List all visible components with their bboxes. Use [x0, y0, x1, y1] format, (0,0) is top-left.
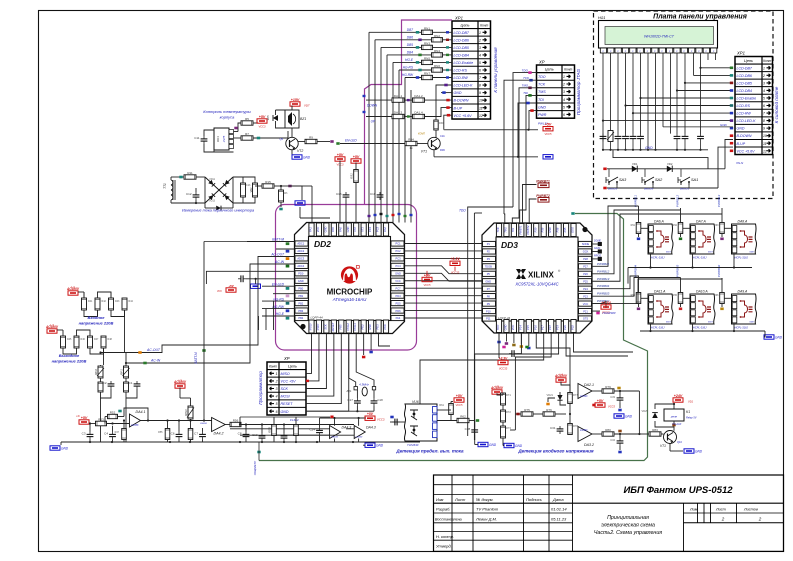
svg-text:GND: GND — [538, 105, 546, 109]
svg-text:P35: P35 — [563, 227, 567, 232]
IC DD3 Xilinx logo — [516, 269, 526, 279]
svg-text:PWRB11: PWRB11 — [597, 262, 609, 266]
svg-text:XS-N: XS-N — [735, 161, 744, 165]
svg-text:R46: R46 — [81, 338, 86, 341]
svg-text:+5V: +5V — [337, 153, 344, 157]
svg-text:3: 3 — [479, 46, 481, 50]
svg-text:C2: C2 — [103, 381, 107, 385]
svg-text:Выходное: Выходное — [59, 353, 80, 358]
svg-text:R30: R30 — [439, 122, 444, 125]
svg-text:RW1: RW1 — [184, 409, 188, 416]
svg-text:1k: 1k — [409, 146, 413, 150]
svg-text:PB5: PB5 — [338, 324, 342, 329]
svg-text:GND: GND — [515, 444, 523, 448]
svg-text:VD7: VD7 — [304, 104, 310, 108]
svg-text:R91: R91 — [631, 224, 636, 227]
svg-text:VCC +5V: VCC +5V — [281, 380, 297, 384]
svg-text:3: 3 — [276, 387, 278, 391]
svg-text:RN3: RN3 — [424, 41, 430, 45]
svg-text:PD5: PD5 — [395, 301, 401, 305]
svg-text:LM339: LM339 — [356, 437, 363, 439]
svg-text:R44: R44 — [129, 300, 134, 303]
wire LCD-LED-K to VT1 — [436, 85, 452, 120]
svg-text:SA1: SA1 — [691, 178, 698, 182]
svg-text:2: 2 — [758, 517, 762, 522]
svg-text:LCD-RS: LCD-RS — [737, 104, 751, 108]
comparator DA4.3 a — [330, 426, 341, 439]
power +3.3V flag below DD3 — [498, 333, 500, 358]
panel GND bus — [602, 149, 708, 151]
svg-text:JTAGPWR: JTAGPWR — [602, 311, 615, 315]
op-amp DA4.1 — [130, 414, 141, 427]
svg-text:PC4: PC4 — [395, 264, 401, 268]
wires HG signals from below — [273, 301, 275, 330]
svg-text:4: 4 — [479, 54, 481, 58]
svg-text:C16: C16 — [370, 192, 376, 196]
wire PD0 row left — [206, 271, 294, 284]
svg-text:+5V: +5V — [353, 155, 360, 159]
svg-text:B-UP: B-UP — [737, 142, 746, 146]
svg-text:R58: R58 — [268, 427, 272, 433]
svg-text:11: 11 — [479, 106, 483, 110]
svg-text:P22: P22 — [571, 325, 575, 330]
panel wiring verticals — [602, 53, 604, 150]
svg-text:C13: C13 — [246, 184, 251, 187]
svg-text:L6: L6 — [76, 414, 80, 418]
optocoupler driver DA6.A — [648, 224, 673, 254]
svg-text:PB1: PB1 — [298, 294, 303, 298]
svg-text:+15V: +15V — [291, 98, 300, 102]
svg-text:GND: GND — [695, 449, 703, 453]
svg-text:VD21: VD21 — [547, 393, 554, 397]
svg-text:VCC: VCC — [217, 290, 222, 293]
svg-text:PWBT1: PWBT1 — [518, 225, 522, 234]
svg-text:C18: C18 — [378, 398, 384, 402]
ground flag left of DD2 rotated — [251, 284, 261, 288]
resistor divider column — [501, 393, 506, 405]
svg-text:VD25: VD25 — [642, 409, 649, 413]
transistor VT1 — [428, 137, 440, 149]
svg-text:GND: GND — [346, 226, 350, 232]
panel trimmer RP1 — [608, 131, 613, 142]
svg-text:R75: R75 — [524, 408, 530, 412]
capacitor C16 — [379, 192, 381, 195]
svg-text:RP1: RP1 — [119, 369, 123, 375]
wires PWRB row2 — [592, 276, 639, 289]
svg-text:P19: P19 — [556, 325, 560, 330]
svg-text:Детекция входного напряжения: Детекция входного напряжения — [517, 449, 594, 454]
ground flag rail — [543, 155, 553, 159]
svg-text:IGBT: IGBT — [750, 252, 755, 254]
resistor input DA8.A — [720, 223, 725, 234]
capacitor C15 — [345, 192, 347, 195]
svg-text:PWRB02: PWRB02 — [717, 265, 721, 278]
ground VT2 — [291, 150, 293, 155]
svg-text:C12: C12 — [186, 192, 192, 196]
svg-text:DD3: DD3 — [501, 240, 518, 250]
svg-text:DA10.A: DA10.A — [696, 290, 708, 294]
resistor pack B-UP — [392, 114, 404, 118]
svg-text:R96: R96 — [714, 294, 719, 297]
wire input DA10.A — [680, 278, 682, 293]
svg-text:LQFP-44: LQFP-44 — [311, 316, 324, 320]
svg-text:DONE: DONE — [594, 240, 601, 243]
svg-text:DA3.2: DA3.2 — [584, 443, 594, 447]
svg-text:+3.3V: +3.3V — [601, 301, 611, 305]
svg-text:LM393: LM393 — [580, 429, 588, 432]
svg-text:8: 8 — [479, 84, 481, 88]
resistor R53 input DA4.1 — [96, 421, 107, 426]
svg-text:P26: P26 — [583, 272, 588, 276]
svg-text:RP2: RP2 — [94, 369, 98, 375]
svg-text:LCD-RS: LCD-RS — [454, 69, 468, 73]
svg-text:TDI: TDI — [511, 228, 515, 232]
wire magenta loop around DD2 — [276, 205, 417, 351]
resistor chain input voltage 220V — [78, 291, 84, 293]
svg-text:TDO: TDO — [496, 325, 500, 330]
svg-text:R78: R78 — [573, 424, 578, 428]
ground VU6 — [478, 442, 488, 446]
svg-text:HCPL-316J: HCPL-316J — [735, 326, 749, 330]
svg-text:HCPL-316J: HCPL-316J — [693, 326, 707, 330]
resistor R31 — [354, 170, 359, 183]
ground flag opto — [764, 335, 774, 339]
svg-text:+5V: +5V — [81, 416, 88, 420]
resistor R30 led — [434, 120, 438, 130]
svg-text:LCD-Enable: LCD-Enable — [737, 97, 757, 101]
svg-text:HG1: HG1 — [598, 16, 605, 20]
svg-text:GND: GND — [489, 443, 497, 447]
svg-text:GND: GND — [368, 324, 372, 330]
svg-text:GND: GND — [720, 123, 728, 127]
svg-text:R9: R9 — [309, 136, 313, 140]
svg-text:MICROCHIP: MICROCHIP — [327, 288, 373, 297]
svg-text:IGBT: IGBT — [708, 322, 713, 324]
svg-text:C3: C3 — [82, 432, 86, 436]
wires PWRB nets — [592, 206, 639, 266]
panel table row ticks — [730, 67, 733, 70]
svg-text:GND: GND — [323, 226, 327, 232]
wire left long from DD3 — [420, 333, 544, 417]
svg-text:LCD-DB6: LCD-DB6 — [454, 38, 469, 42]
svg-text:HCPL-316J: HCPL-316J — [693, 256, 707, 260]
svg-text:SCK: SCK — [323, 324, 327, 330]
svg-text:C33: C33 — [610, 395, 615, 399]
svg-text:XP: XP — [538, 60, 545, 65]
wires relay — [655, 404, 674, 409]
svg-text:Подпись: Подпись — [526, 497, 542, 502]
svg-text:SONE: SONE — [582, 242, 590, 246]
svg-text:R55: R55 — [158, 431, 163, 434]
svg-text:R41: R41 — [88, 300, 93, 303]
svg-text:P11: P11 — [486, 317, 491, 321]
wire DA4.1 output — [141, 420, 212, 422]
svg-text:5: 5 — [563, 105, 565, 109]
svg-text:R72: R72 — [506, 410, 511, 414]
svg-text:1: 1 — [479, 31, 481, 35]
svg-text:LCD-RW: LCD-RW — [737, 112, 752, 116]
svg-text:Цепь: Цепь — [744, 59, 753, 63]
transistor VT2 — [286, 137, 298, 149]
svg-text:DOWN: DOWN — [367, 104, 378, 108]
svg-text:P7: P7 — [487, 287, 491, 291]
wires comparator inputs — [230, 428, 330, 430]
svg-text:P25: P25 — [583, 279, 588, 283]
svg-text:ZQ1: ZQ1 — [345, 389, 352, 393]
svg-text:IGBT: IGBT — [750, 322, 755, 324]
svg-text:VCC: VCC — [583, 302, 589, 306]
svg-text:XC9572XL-10VQG44C: XC9572XL-10VQG44C — [514, 282, 559, 287]
svg-text:TCK: TCK — [496, 227, 500, 232]
svg-text:R62: R62 — [460, 415, 466, 419]
svg-text:R06: R06 — [440, 148, 445, 152]
svg-text:реле: реле — [670, 415, 678, 419]
diode VD buzzer — [273, 115, 278, 121]
svg-text:DD2: DD2 — [314, 239, 331, 249]
svg-text:P18: P18 — [548, 325, 552, 330]
svg-text:Измерение тока первичного инве: Измерение тока первичного инвертора — [182, 209, 254, 213]
svg-text:VD1: VD1 — [688, 400, 694, 404]
svg-text:IGBT: IGBT — [666, 322, 671, 324]
svg-text:Лист: Лист — [715, 507, 726, 511]
svg-text:P28: P28 — [583, 257, 588, 261]
panel capacitors — [602, 134, 604, 137]
svg-text:электрическая схема: электрическая схема — [601, 523, 655, 529]
svg-text:4: 4 — [763, 89, 765, 93]
svg-text:P16: P16 — [533, 325, 537, 330]
svg-text:Конт: Конт — [269, 365, 277, 369]
svg-text:P8: P8 — [487, 294, 491, 298]
svg-text:LM393: LM393 — [580, 395, 588, 398]
svg-text:IGBT: IGBT — [666, 252, 671, 254]
svg-text:WH1602D-TMI-CT: WH1602D-TMI-CT — [644, 35, 675, 39]
svg-text:VR1: VR1 — [249, 187, 253, 193]
svg-text:Конт: Конт — [564, 68, 572, 72]
resistor packs LCD lines — [422, 30, 433, 34]
svg-text:10: 10 — [763, 134, 767, 138]
wire BATT-M net — [203, 242, 205, 421]
svg-text:GND: GND — [503, 324, 507, 330]
svg-text:TV Phantom: TV Phantom — [476, 507, 499, 512]
svg-text:ADC2: ADC2 — [297, 249, 304, 253]
svg-text:R71: R71 — [506, 393, 511, 397]
svg-text:VD1: VD1 — [632, 162, 638, 166]
svg-text:C17: C17 — [347, 398, 353, 402]
ticks above DD2 pins — [368, 215, 371, 217]
svg-text:XT2: XT2 — [353, 227, 357, 233]
svg-text:Лим: Лим — [689, 507, 698, 511]
svg-text:R56: R56 — [233, 419, 239, 423]
svg-text:AC220V: AC220V — [45, 325, 59, 329]
zener VD21 — [557, 395, 562, 400]
svg-text:HG-E: HG-E — [276, 312, 285, 316]
svg-text:PWRB03: PWRB03 — [676, 265, 680, 278]
svg-text:HCPL-316J: HCPL-316J — [651, 256, 665, 260]
svg-text:TMS: TMS — [538, 90, 546, 94]
svg-text:DA1.1: DA1.1 — [394, 94, 403, 98]
svg-text:+5V: +5V — [545, 123, 552, 127]
svg-text:LCD-DB6: LCD-DB6 — [737, 74, 752, 78]
svg-text:HG-RW: HG-RW — [402, 73, 414, 77]
svg-text:R93: R93 — [714, 224, 719, 227]
capacitor C24 — [319, 428, 321, 431]
svg-text:TDO: TDO — [538, 75, 546, 79]
svg-text:MISO: MISO — [281, 372, 290, 376]
svg-text:ИБП Фантом UPS-0512: ИБП Фантом UPS-0512 — [623, 485, 733, 496]
svg-text:VCC5: VCC5 — [424, 283, 431, 287]
svg-text:P23: P23 — [583, 294, 588, 298]
svg-text:VD13: VD13 — [209, 200, 216, 203]
svg-text:RESET: RESET — [281, 402, 294, 406]
svg-text:КОМП: КОМП — [418, 133, 425, 136]
svg-text:P14: P14 — [518, 325, 522, 330]
wires DD2 XTAL — [349, 334, 356, 387]
svg-text:DA8.A: DA8.A — [738, 220, 749, 224]
svg-text:C24: C24 — [309, 428, 315, 432]
svg-text:P1: P1 — [487, 242, 491, 246]
wires bridge outputs to DD2 — [288, 186, 302, 200]
wire JTAG PWR — [529, 111, 537, 130]
svg-text:TDO: TDO — [459, 209, 466, 213]
svg-text:PA5: PA5 — [331, 227, 335, 232]
svg-text:Утверд.: Утверд. — [436, 544, 452, 549]
svg-text:ADC4: ADC4 — [297, 264, 304, 268]
svg-text:1: 1 — [276, 372, 278, 376]
svg-text:2: 2 — [762, 74, 765, 78]
wires temperature — [287, 131, 289, 138]
svg-text:PWRB13: PWRB13 — [597, 277, 610, 281]
wire DA4.2 output — [230, 422, 241, 426]
svg-text:P24: P24 — [583, 287, 588, 291]
button SA3 — [608, 182, 610, 185]
svg-text:GND: GND — [395, 272, 401, 276]
svg-text:GND: GND — [61, 446, 69, 450]
svg-text:PD0: PD0 — [298, 272, 304, 276]
svg-text:VD5: VD5 — [266, 115, 270, 121]
resistor R7 — [241, 136, 253, 140]
ground relay — [669, 444, 671, 452]
resistor R52 feedback DA4.1 — [108, 414, 118, 418]
svg-text:PWRB04: PWRB04 — [634, 265, 638, 278]
svg-text:LCD-DB4: LCD-DB4 — [454, 54, 469, 58]
components DA4.2 area — [165, 429, 170, 440]
optocoupler driver DA10.A — [690, 294, 715, 324]
resistor chain output voltage 220V — [57, 329, 63, 331]
svg-text:LCD-DB7: LCD-DB7 — [737, 66, 753, 70]
svg-text:AC-IN: AC-IN — [150, 359, 161, 363]
svg-text:RN4: RN4 — [434, 49, 440, 53]
svg-text:VCC5: VCC5 — [545, 132, 552, 136]
svg-text:PC6: PC6 — [383, 324, 387, 330]
svg-text:XTAL1: XTAL1 — [353, 323, 357, 332]
svg-text:01.01.14: 01.01.14 — [551, 507, 567, 512]
ticks below DD3 — [502, 346, 505, 349]
wire feedback loop DA4.1 — [124, 408, 148, 421]
trimmer RP2 divider — [98, 366, 103, 378]
svg-text:2: 2 — [721, 517, 725, 522]
svg-text:2: 2 — [275, 380, 278, 384]
svg-text:PWRB03: PWRB03 — [597, 292, 610, 296]
svg-text:VD11: VD11 — [209, 178, 215, 181]
svg-text:R80: R80 — [605, 428, 611, 432]
svg-text:+5V: +5V — [597, 399, 604, 403]
svg-text:DB5: DB5 — [407, 43, 413, 47]
svg-text:5: 5 — [479, 61, 481, 65]
svg-text:LM75: LM75 — [222, 135, 226, 142]
svg-text:+5V: +5V — [259, 115, 266, 119]
wire input DA9.A — [721, 278, 723, 293]
wire AC-OUT — [101, 256, 295, 352]
svg-text:+5V: +5V — [367, 412, 374, 416]
wire input DA8.A — [721, 208, 723, 223]
svg-text:VCC: VCC — [395, 279, 401, 283]
svg-text:Q5: Q5 — [280, 137, 284, 141]
svg-text:HCPL-316J: HCPL-316J — [651, 326, 665, 330]
svg-text:SCK: SCK — [281, 387, 289, 391]
svg-text:VCC3: VCC3 — [377, 418, 385, 422]
optocoupler driver DA9.A — [732, 294, 757, 324]
capacitors C21 C22 — [356, 398, 358, 401]
svg-text:PWBT2: PWBT2 — [526, 225, 530, 234]
svg-text:TT1: TT1 — [163, 183, 167, 189]
svg-text:PA4: PA4 — [396, 316, 401, 320]
svg-text:TDOB: TDOB — [485, 265, 492, 269]
svg-text:12: 12 — [763, 149, 767, 153]
svg-text:PB0: PB0 — [298, 286, 303, 290]
svg-text:PC1: PC1 — [395, 242, 401, 246]
svg-text:PWRB12: PWRB12 — [676, 195, 680, 208]
resistor R5 — [241, 121, 253, 125]
svg-text:C31: C31 — [550, 426, 556, 430]
svg-text:XT1: XT1 — [361, 227, 365, 233]
svg-text:PA6: PA6 — [338, 227, 342, 232]
svg-text:Конт: Конт — [480, 24, 488, 28]
svg-text:FLSHI: FLSHI — [290, 418, 299, 422]
wire AC-IN — [126, 264, 295, 363]
op-amp DA3.2 — [578, 427, 592, 442]
svg-text:PROG: PROG — [594, 254, 601, 257]
svg-text:10: 10 — [479, 99, 483, 103]
svg-text:12: 12 — [479, 114, 483, 118]
IC DD2 ATmega16 body — [295, 223, 405, 334]
svg-text:ATmega16-16AU: ATmega16-16AU — [332, 297, 367, 302]
svg-text:R76: R76 — [546, 408, 552, 412]
svg-text:GND: GND — [485, 279, 491, 283]
IC DD3 Xilinx XC9572XL body — [482, 223, 592, 333]
svg-text:SA3: SA3 — [619, 178, 627, 182]
svg-text:PD1: PD1 — [368, 226, 372, 232]
svg-text:DB6: DB6 — [407, 36, 413, 40]
resistor input DA11.A — [636, 293, 641, 304]
svg-text:GND: GND — [303, 155, 311, 159]
wire GND rail — [434, 156, 538, 158]
svg-text:DA4.3: DA4.3 — [366, 426, 376, 430]
relay K1 — [664, 409, 684, 421]
wire long vertical mid net — [473, 213, 475, 440]
svg-text:5: 5 — [276, 402, 278, 406]
wire DD3 bottom right B — [574, 333, 634, 352]
svg-text:HG-RS: HG-RS — [403, 66, 414, 70]
svg-text:C1: C1 — [129, 381, 133, 385]
svg-text:R53: R53 — [98, 417, 104, 421]
svg-text:Левин Д.М.: Левин Д.М. — [475, 516, 497, 521]
wires opto row1 bottom bus — [628, 267, 752, 269]
wire VCC5.6 to +5V rail — [444, 115, 452, 130]
svg-text:AC220V: AC220V — [66, 287, 80, 291]
svg-text:8: 8 — [763, 119, 765, 123]
svg-text:RESET: RESET — [331, 322, 335, 331]
svg-text:HG-RS: HG-RS — [273, 297, 284, 301]
